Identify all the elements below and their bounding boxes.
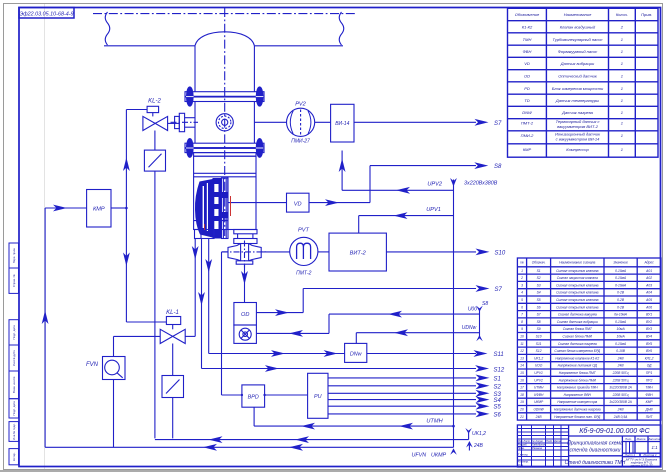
wire control riser x126 [125, 110, 127, 323]
svg-text:11: 11 [520, 342, 524, 346]
wire KL-1 stem down [172, 344, 174, 376]
svg-text:S5: S5 [537, 298, 541, 302]
svg-text:Наименование: Наименование [564, 12, 592, 17]
svg-text:№: № [520, 261, 524, 265]
wire pump to VD [256, 202, 287, 204]
svg-text:19: 19 [520, 400, 524, 404]
wire bottom bus y448 [45, 446, 453, 448]
svg-text:Хабибулин: Хабибулин [531, 443, 546, 447]
svg-text:ПР1: ПР1 [646, 371, 653, 375]
svg-text:Напряжение компрессора: Напряжение компрессора [557, 400, 597, 404]
svg-text:10мА: 10мА [617, 327, 626, 331]
svg-text:S3: S3 [537, 283, 541, 287]
svg-text:16: 16 [520, 378, 524, 382]
exhaust cross fitting [228, 244, 241, 261]
svg-text:Адрес: Адрес [643, 261, 654, 265]
wires PU outputs S1-S6 [328, 377, 476, 379]
wire BPD to PU [265, 394, 308, 396]
svg-text:UK1,2: UK1,2 [472, 431, 486, 437]
svg-text:ВУ2: ВУ2 [646, 320, 652, 324]
side port centerline [171, 121, 199, 123]
svg-text:Блок измерения мощности: Блок измерения мощности [552, 86, 604, 91]
svg-text:1: 1 [621, 74, 623, 79]
svg-text:1:1: 1:1 [651, 445, 658, 450]
svg-text:UКМР: UКМР [431, 453, 447, 459]
wire exhaust to PVT [261, 251, 290, 253]
vessel upper shell walls [194, 46, 196, 92]
break wavy line left [105, 12, 110, 45]
unit VI-14 box [331, 104, 354, 142]
wire FVN bottom drain [113, 380, 115, 448]
svg-text:Взам. инв.№: Взам. инв.№ [12, 377, 16, 394]
wire UPV2 horizontal [342, 189, 453, 191]
wire UPV2 riser to VI-14 [341, 151, 343, 191]
wire control return line y439 [155, 439, 469, 441]
svg-text:UDNW: UDNW [533, 408, 544, 412]
svg-text:ВУ6: ВУ6 [646, 349, 652, 353]
svg-text:UFVN: UFVN [412, 453, 427, 459]
svg-text:ПР2: ПР2 [646, 378, 653, 382]
svg-text:FVN: FVN [86, 362, 99, 368]
svg-text:Подп. дата: Подп. дата [12, 325, 16, 340]
svg-text:S8: S8 [482, 301, 488, 307]
svg-text:21: 21 [519, 415, 524, 419]
svg-text:А02: А02 [645, 276, 652, 280]
svg-text:группа МТ11-77: группа МТ11-77 [630, 464, 652, 468]
svg-text:0-2В: 0-2В [617, 291, 625, 295]
wire valve KL-2 to vessel port [168, 122, 180, 124]
svg-text:Инв.№ дубл.: Инв.№ дубл. [12, 350, 16, 367]
svg-text:№ докум.: № докум. [532, 439, 544, 443]
pump top plate [194, 153, 256, 157]
svg-text:Сигнал датчика нагрева: Сигнал датчика нагрева [558, 342, 597, 346]
valve KL-2 actuator [147, 106, 159, 112]
svg-text:13: 13 [520, 356, 524, 360]
svg-text:3х220/380В 2А: 3х220/380В 2А [609, 400, 632, 404]
lamp box under OD [234, 325, 257, 343]
svg-text:UPV2: UPV2 [534, 378, 543, 382]
svg-text:ВИ-14: ВИ-14 [335, 121, 349, 127]
svg-text:Т.контр.: Т.контр. [518, 453, 529, 457]
gauge PVT circle with coil [290, 237, 318, 265]
svg-text:ВУ3: ВУ3 [646, 327, 652, 331]
wire left bus vertical [44, 208, 46, 447]
svg-text:Лит.: Лит. [624, 437, 632, 441]
svg-text:А06: А06 [645, 305, 652, 309]
valve KL-1 actuator [166, 317, 180, 325]
svg-text:S4: S4 [537, 291, 541, 295]
wire OD out to S7b [256, 312, 303, 314]
svg-text:Сигнал открытия клапана: Сигнал открытия клапана [556, 283, 599, 287]
svg-text:Эф22.03.05.10-68-4-9: Эф22.03.05.10-68-4-9 [19, 12, 73, 18]
svg-text:220В 50Гц: 220В 50Гц [612, 378, 629, 382]
svg-text:S1: S1 [537, 269, 541, 273]
svg-text:S11: S11 [494, 352, 504, 358]
arrow up on left bus [42, 311, 49, 325]
svg-text:Сигнал блока ПМИ: Сигнал блока ПМИ [563, 335, 593, 339]
svg-text:А04: А04 [645, 291, 652, 295]
svg-text:Принципиальная схема: Принципиальная схема [567, 441, 623, 447]
svg-text:Наименование сигнала: Наименование сигнала [559, 261, 595, 265]
svg-text:ПМТ-2: ПМТ-2 [296, 271, 312, 277]
svg-text:PV2: PV2 [295, 102, 306, 108]
svg-text:VD: VD [524, 61, 530, 66]
svg-text:9: 9 [521, 327, 523, 331]
svg-text:КМР: КМР [93, 206, 105, 212]
svg-text:S8: S8 [494, 164, 502, 170]
svg-text:К1-К2: К1-К2 [522, 25, 533, 30]
break wavy line right [339, 12, 344, 45]
svg-text:стенда диагностики: стенда диагностики [570, 448, 621, 454]
svg-text:Клапан воздушный: Клапан воздушный [560, 25, 596, 30]
flange F1 plates [185, 92, 264, 97]
svg-text:1: 1 [621, 86, 623, 91]
wire UOO feed [329, 313, 480, 315]
wire PV2 to VI-14 [315, 121, 331, 123]
svg-text:UPV1: UPV1 [534, 371, 543, 375]
svg-text:Напряжение датчика нагрева: Напряжение датчика нагрева [554, 408, 601, 412]
svg-text:VD: VD [294, 202, 302, 208]
svg-text:ПИТ: ПИТ [646, 415, 654, 419]
wire UDNw feed [356, 332, 479, 334]
red scan marks [230, 196, 232, 216]
viewport flange circles [216, 114, 233, 131]
svg-text:Форвакуумный насос: Форвакуумный насос [558, 49, 598, 54]
wire KL-1 right to pump drop [185, 335, 195, 337]
wire FVN top to KL-1 [113, 336, 115, 356]
svg-text:PU: PU [314, 394, 322, 400]
svg-text:14: 14 [520, 364, 524, 368]
side port flange plate [179, 113, 184, 131]
wire S12 line [202, 368, 477, 370]
title block [517, 425, 661, 467]
regulator box under KL-2 [144, 150, 165, 171]
svg-text:S2: S2 [537, 276, 541, 280]
svg-text:UK1,2: UK1,2 [534, 356, 543, 360]
left margin stamp cells [9, 243, 19, 465]
wire VIT-2 to S10 [386, 251, 476, 253]
duct bottom line left segment [104, 45, 195, 47]
wire vessel to PV2 [254, 121, 286, 123]
svg-text:Напряжение клапанов К1-К2: Напряжение клапанов К1-К2 [555, 356, 599, 360]
svg-text:1: 1 [621, 147, 623, 152]
svg-text:OD: OD [241, 312, 249, 318]
svg-text:12: 12 [520, 349, 524, 353]
svg-text:Турбомолекулярный насос: Турбомолекулярный насос [553, 37, 603, 42]
svg-text:ДНВ: ДНВ [645, 408, 654, 412]
svg-text:КЛ1,2: КЛ1,2 [645, 356, 654, 360]
svg-text:220В 50Гц: 220В 50Гц [612, 371, 629, 375]
svg-text:S10: S10 [495, 250, 506, 256]
svg-text:1: 1 [521, 269, 523, 273]
svg-text:ПМИ-2: ПМИ-2 [521, 133, 534, 138]
svg-text:Утв.: Утв. [518, 463, 524, 467]
svg-text:Изм Лист: Изм Лист [518, 439, 531, 443]
svg-text:7: 7 [521, 313, 523, 317]
wire exhaust bottom to OD [244, 264, 246, 302]
svg-text:Датчик температуры: Датчик температуры [555, 98, 599, 103]
svg-text:Оптический датчик: Оптический датчик [558, 74, 598, 79]
wire VI-14 to S7 [354, 121, 476, 123]
flange F2 bolts [187, 139, 194, 158]
svg-text:Обознач.: Обознач. [532, 261, 546, 265]
svg-text:ПМТ-2: ПМТ-2 [521, 121, 534, 126]
svg-text:Подп.: Подп. [546, 439, 553, 443]
svg-text:КМР: КМР [523, 147, 532, 152]
svg-text:Напряжение блока ПМТ: Напряжение блока ПМТ [559, 371, 597, 375]
svg-text:DNw: DNw [350, 352, 363, 358]
wire left bus into KMP [45, 207, 87, 209]
svg-text:24В: 24В [617, 356, 625, 360]
wire KL-1 chain to bottom line [172, 398, 174, 439]
svg-text:Напряжение привода ТМН: Напряжение привода ТМН [557, 386, 598, 390]
svg-text:ТМН: ТМН [523, 37, 532, 42]
svg-text:BPD: BPD [248, 395, 259, 401]
stub 24V [468, 445, 470, 451]
wire pump exhaust to KL-1 riser [194, 239, 196, 337]
wire UPV1 [359, 215, 454, 217]
svg-text:Разраб.: Разраб. [518, 443, 528, 447]
wire pump tap S12 riser [201, 239, 203, 369]
svg-text:1: 1 [621, 49, 623, 54]
svg-text:ФВН: ФВН [645, 393, 653, 397]
pump base feet [195, 230, 215, 239]
svg-text:17: 17 [520, 386, 524, 390]
duct axis dash-dot line [93, 13, 355, 15]
svg-text:DNW: DNW [522, 110, 533, 115]
svg-text:Сигнал открытия клапана: Сигнал открытия клапана [556, 269, 599, 273]
svg-text:S7: S7 [494, 121, 502, 127]
component list table [508, 8, 659, 157]
pump motor section dense cross-hatch [195, 179, 213, 238]
valve KL-1 body [160, 329, 173, 343]
svg-text:6: 6 [521, 305, 523, 309]
svg-text:3х220/380В 2А: 3х220/380В 2А [609, 386, 632, 390]
svg-text:TD: TD [524, 98, 529, 103]
svg-text:Масштаб: Масштаб [647, 437, 661, 441]
svg-text:Стенд диагностики ТМН: Стенд диагностики ТМН [565, 460, 626, 466]
valve KL-2 body [143, 116, 155, 130]
svg-text:2: 2 [520, 276, 523, 280]
svg-text:Прим.: Прим. [641, 12, 652, 17]
svg-text:S12: S12 [536, 349, 542, 353]
flange F1 bolts [187, 87, 194, 106]
svg-text:0-10мА: 0-10мА [615, 320, 627, 324]
svg-text:Значение: Значение [613, 261, 628, 265]
wire KL-2 chain down to bottom bus [154, 171, 156, 438]
stub UK1,2 [468, 433, 470, 440]
svg-text:UТМН: UТМН [426, 418, 443, 424]
unit BPD box [242, 385, 265, 407]
svg-text:15: 15 [520, 371, 524, 375]
svg-text:4: 4 [521, 291, 523, 295]
svg-text:1: 1 [621, 110, 623, 115]
wire UTMN from bus to BPD bottom [253, 407, 255, 426]
sensor OD box [234, 303, 257, 326]
svg-text:Масса: Масса [637, 437, 646, 441]
svg-text:с вакуумметром ВИ-14: с вакуумметром ВИ-14 [556, 137, 601, 142]
svg-text:UФВН: UФВН [534, 393, 544, 397]
svg-text:S1: S1 [494, 376, 501, 382]
svg-text:0-2В: 0-2В [617, 305, 625, 309]
svg-text:5: 5 [521, 298, 523, 302]
svg-text:0-10мА: 0-10мА [615, 342, 627, 346]
arrow down on x126 [123, 253, 130, 267]
exhaust port plate [234, 230, 257, 234]
svg-text:KL-1: KL-1 [166, 310, 179, 316]
svg-text:Пров.: Пров. [518, 446, 525, 450]
svg-text:ВИТ-2: ВИТ-2 [350, 251, 367, 257]
svg-text:Напряжение блока ПМИ: Напряжение блока ПМИ [559, 378, 597, 382]
svg-text:Напряжение питания ОД: Напряжение питания ОД [558, 364, 598, 368]
vessel centerline [224, 8, 226, 236]
title block left grid [521, 425, 523, 467]
unit VIT-2 box [329, 233, 386, 271]
gauge PV2 circle [287, 108, 315, 136]
svg-text:Инв.№ подл.: Инв.№ подл. [12, 423, 16, 440]
svg-text:1: 1 [621, 37, 623, 42]
wire S11 line [209, 353, 345, 355]
svg-text:Дата: Дата [553, 439, 561, 443]
svg-text:220В 50Гц: 220В 50Гц [612, 393, 629, 397]
svg-text:S5: S5 [494, 405, 502, 411]
wire VD to S8 [309, 202, 370, 204]
stub arrow end of bottom bus [450, 448, 457, 455]
svg-text:S12: S12 [494, 367, 505, 373]
svg-text:Компрессор: Компрессор [566, 147, 589, 152]
svg-text:U00: U00 [468, 306, 477, 312]
svg-text:24В: 24В [617, 364, 625, 368]
wire KMP output to control riser [111, 207, 126, 209]
svg-text:UPV2: UPV2 [427, 182, 443, 188]
svg-text:Сигнал блока ПМТ: Сигнал блока ПМТ [563, 327, 593, 331]
svg-text:КМР: КМР [646, 400, 654, 404]
svg-text:S11: S11 [536, 342, 542, 346]
svg-text:Напряжение блоков пит. БРД: Напряжение блоков пит. БРД [554, 415, 601, 419]
svg-text:Копир.: Копир. [12, 452, 16, 461]
svg-text:UPV1: UPV1 [426, 207, 441, 213]
svg-text:Рязанов: Рязанов [532, 446, 543, 450]
svg-text:ВУ1: ВУ1 [646, 313, 652, 317]
side port tube [185, 117, 195, 119]
svg-text:А03: А03 [645, 283, 652, 287]
sensor DNw box [345, 343, 367, 362]
wire exhaust left to BPD riser [222, 251, 229, 253]
vessel mid shell walls [194, 102, 196, 144]
node stub between UOO and UDNw [479, 309, 481, 339]
svg-text:Справ. №: Справ. № [12, 274, 16, 287]
svg-text:1: 1 [621, 121, 623, 126]
svg-text:S10: S10 [536, 335, 542, 339]
exhaust neck [237, 234, 239, 239]
svg-text:Сигнал датчика вакуума: Сигнал датчика вакуума [558, 313, 597, 317]
svg-text:Подп. дата: Подп. дата [12, 401, 16, 416]
svg-text:Датчик нагрева: Датчик нагрева [561, 110, 594, 115]
svg-text:вакуумметром ВИТ-2: вакуумметром ВИТ-2 [557, 124, 599, 129]
top-left designation box [19, 8, 74, 19]
svg-text:Обозначение: Обозначение [515, 12, 540, 17]
svg-text:S4: S4 [494, 398, 502, 404]
svg-text:Датчик вибрации: Датчик вибрации [560, 61, 595, 66]
unit PU box [308, 373, 328, 418]
svg-text:24В: 24В [535, 415, 543, 419]
svg-text:0-10В: 0-10В [616, 349, 626, 353]
svg-text:UКМР: UКМР [534, 400, 544, 404]
svg-text:18: 18 [520, 393, 524, 397]
svg-text:ВУ5: ВУ5 [646, 342, 652, 346]
svg-text:10: 10 [520, 335, 524, 339]
svg-text:0в-10мА: 0в-10мА [614, 313, 628, 317]
svg-text:Напряжение ФВН: Напряжение ФВН [564, 393, 592, 397]
svg-text:Сигнал открытия клапана: Сигнал открытия клапана [556, 305, 599, 309]
svg-text:20: 20 [519, 408, 524, 412]
pump FVN box [103, 357, 126, 380]
svg-text:Кб-9-09-01.00.000 ФС: Кб-9-09-01.00.000 ФС [579, 427, 650, 435]
wire pump tap S11 riser [208, 239, 210, 354]
svg-text:Сигнал датчика вибрации: Сигнал датчика вибрации [557, 320, 598, 324]
svg-text:3x220Вх380В: 3x220Вх380В [464, 180, 498, 186]
svg-text:S6: S6 [537, 305, 541, 309]
svg-text:24В: 24В [617, 408, 625, 412]
sensor VD box [287, 193, 310, 212]
svg-text:1: 1 [621, 133, 623, 138]
duct bottom line right segment [254, 45, 343, 47]
flange F2 plates [185, 143, 264, 147]
svg-text:0-2В: 0-2В [617, 298, 625, 302]
svg-text:Сигнал закрытия клапана: Сигнал закрытия клапана [557, 276, 598, 280]
svg-text:S7: S7 [495, 287, 503, 293]
svg-text:Колич.: Колич. [616, 12, 628, 17]
svg-text:Сигнал открытия клапана: Сигнал открытия клапана [556, 291, 599, 295]
arrow up on x126 [123, 158, 130, 172]
wire PVT to VIT-2 [318, 251, 329, 253]
svg-text:S7: S7 [537, 313, 541, 317]
signal list table [517, 258, 661, 420]
wire KL-2 down stem [154, 131, 156, 151]
svg-text:ПМИ-27: ПМИ-27 [291, 139, 310, 145]
svg-text:0-10мА: 0-10мА [615, 276, 627, 280]
svg-text:24В: 24В [473, 443, 484, 449]
svg-text:Сигнал открытия клапана: Сигнал открытия клапана [556, 298, 599, 302]
svg-text:KL-2: KL-2 [148, 99, 161, 105]
svg-text:А05: А05 [645, 298, 652, 302]
svg-text:1: 1 [621, 61, 623, 66]
svg-text:8: 8 [521, 320, 523, 324]
svg-text:S8: S8 [537, 320, 541, 324]
regulator box under KL-1 [162, 376, 184, 398]
svg-text:24В 0,5А: 24В 0,5А [613, 415, 628, 419]
compressor KMP box [87, 190, 111, 228]
svg-text:0-10мА: 0-10мА [615, 269, 627, 273]
svg-text:S3: S3 [494, 392, 502, 398]
svg-text:0-10мА: 0-10мА [615, 283, 627, 287]
svg-text:10мА: 10мА [617, 335, 626, 339]
power bus 3x220/380V [453, 180, 455, 427]
svg-text:ВУ4: ВУ4 [646, 335, 652, 339]
svg-text:А01: А01 [645, 269, 652, 273]
svg-text:UТМН: UТМН [534, 386, 544, 390]
svg-text:ФВН: ФВН [523, 49, 532, 54]
svg-text:ОД: ОД [647, 364, 652, 368]
svg-text:S6: S6 [494, 412, 502, 418]
svg-text:PD: PD [524, 86, 530, 91]
pump TMN housing [194, 156, 256, 229]
svg-text:UDNw: UDNw [462, 325, 477, 331]
svg-text:S9: S9 [537, 327, 541, 331]
svg-text:ТМН: ТМН [646, 386, 654, 390]
exhaust axis centerlines [222, 251, 267, 253]
wire power bus lower segment [453, 426, 455, 447]
